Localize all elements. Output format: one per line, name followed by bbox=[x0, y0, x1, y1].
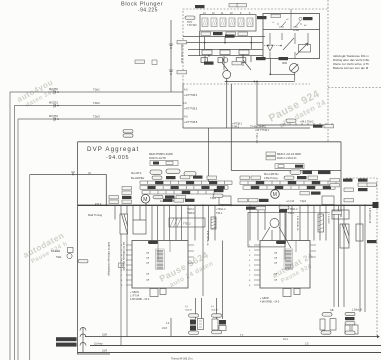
svg-text:2.5: 2.5 bbox=[305, 343, 309, 346]
svg-text:T4p/2: T4p/2 bbox=[300, 200, 307, 203]
svg-text:+4/T??38.2: +4/T??38.2 bbox=[184, 93, 198, 97]
svg-text:(L): (L) bbox=[211, 306, 214, 308]
svg-text:4.0: 4.0 bbox=[183, 101, 187, 105]
svg-text:Mex.RT/L: Mex.RT/L bbox=[131, 172, 142, 175]
svg-text:T2b/3: T2b/3 bbox=[93, 115, 100, 119]
svg-text:L5.8: L5.8 bbox=[162, 327, 167, 330]
svg-text:K.LEER: K.LEER bbox=[51, 249, 60, 253]
svg-text:TED.: TED. bbox=[56, 255, 62, 259]
svg-text:RHR # LIG/TD: RHR # LIG/TD bbox=[149, 156, 166, 160]
svg-text:L5/9: L5/9 bbox=[102, 350, 107, 353]
svg-text:3M2: 3M2 bbox=[282, 61, 288, 65]
svg-text:+T94/1.2: +T94/1.2 bbox=[216, 208, 226, 211]
svg-text:MER # +94.1/4 MRD: MER # +94.1/4 MRD bbox=[277, 152, 301, 156]
svg-text:(L): (L) bbox=[185, 306, 188, 308]
svg-text:M: M bbox=[143, 197, 147, 203]
svg-text:DIRECTION 3CM: DIRECTION 3CM bbox=[180, 44, 183, 63]
svg-text:+4/T??38.8: +4/T??38.8 bbox=[184, 120, 198, 124]
svg-text:T-94.2: T-94.2 bbox=[232, 126, 240, 129]
svg-text:Mail Timing: Mail Timing bbox=[88, 213, 103, 217]
svg-text:T2b/1: T2b/1 bbox=[93, 88, 100, 92]
svg-text:+2.4.10: +2.4.10 bbox=[286, 200, 295, 203]
svg-text:nicht für Fahrzeuge mit Anhäng: nicht für Fahrzeuge mit Anhänger bbox=[107, 242, 110, 276]
svg-text:15 Amp: 15 Amp bbox=[94, 343, 103, 346]
svg-text:2.5 GR/RT: 2.5 GR/RT bbox=[327, 214, 329, 225]
svg-text:Gab.M: Gab.M bbox=[185, 310, 192, 312]
svg-text:-94.005: -94.005 bbox=[106, 155, 129, 161]
svg-text:4.0: 4.0 bbox=[184, 115, 188, 119]
svg-text:T?02.2: T?02.2 bbox=[183, 223, 191, 226]
svg-text:+4/T??38.5: +4/T??38.5 bbox=[184, 107, 198, 111]
svg-text:+94 T??38.1: +94 T??38.1 bbox=[255, 129, 270, 132]
svg-text:DVP Aggregat: DVP Aggregat bbox=[87, 146, 139, 153]
svg-text:L5.1: L5.1 bbox=[283, 338, 288, 341]
svg-text:T93.1: T93.1 bbox=[288, 212, 295, 215]
svg-text:RHR 2.1 RG4./D: RHR 2.1 RG4./D bbox=[277, 156, 296, 160]
svg-text:Batterie können turn ale M: Batterie können turn ale M bbox=[333, 66, 369, 70]
svg-text:4.0: 4.0 bbox=[184, 88, 188, 92]
svg-text:4.88 GR/BL 04: 4.88 GR/BL 04 bbox=[296, 216, 298, 231]
svg-text:4.88 GR/BL - 04.0: 4.88 GR/BL - 04.0 bbox=[130, 298, 150, 301]
svg-text:+T94/1.2: +T94/1.2 bbox=[288, 208, 298, 211]
svg-text:T-94 LRD: T-94 LRD bbox=[255, 133, 258, 144]
svg-text:4.88 GR/BL - 04.0: 4.88 GR/BL - 04.0 bbox=[260, 301, 280, 304]
svg-text:MER #TRB8 LIG/RD: MER #TRB8 LIG/RD bbox=[149, 152, 173, 156]
svg-text:T.DY.W3: T.DY.W3 bbox=[187, 24, 197, 27]
svg-text:Gab.M: Gab.M bbox=[211, 310, 218, 312]
svg-text:MX/750: MX/750 bbox=[49, 87, 58, 91]
svg-text:Bw.LRR/Bw: Bw.LRR/Bw bbox=[131, 177, 144, 180]
svg-text:IM BR: IM BR bbox=[293, 30, 299, 32]
svg-text:4.88 GR/BL 04: 4.88 GR/BL 04 bbox=[206, 231, 208, 246]
svg-text:4.88 GR/BL 04: 4.88 GR/BL 04 bbox=[368, 208, 370, 224]
svg-text:M: M bbox=[273, 192, 277, 198]
svg-text:MX/751: MX/751 bbox=[49, 101, 58, 105]
svg-text:T2b/2: T2b/2 bbox=[93, 101, 100, 105]
svg-text:T93.1: T93.1 bbox=[216, 212, 223, 215]
svg-text:4.Bw.Timing: 4.Bw.Timing bbox=[264, 177, 278, 180]
svg-text:Mex.LRR Mx: Mex.LRR Mx bbox=[264, 173, 279, 176]
svg-text:1.5des.M: 1.5des.M bbox=[352, 309, 362, 312]
svg-text:nur für Fahrzeuge ohne 4x4: nur für Fahrzeuge ohne 4x4 bbox=[122, 242, 125, 271]
svg-text:-94.225: -94.225 bbox=[138, 8, 158, 14]
svg-text:GB: GB bbox=[330, 309, 334, 312]
svg-text:MX/752: MX/752 bbox=[49, 114, 58, 118]
svg-text:L5/8: L5/8 bbox=[102, 334, 107, 337]
